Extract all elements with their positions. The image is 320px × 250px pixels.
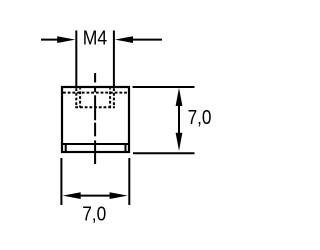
- hidden line: thread minor diameter left: [79, 88, 81, 107]
- hidden line: thread major diameter right: [113, 88, 115, 107]
- bottom step tick right: [125, 144, 127, 152]
- dimension M4: extension line right: [113, 31, 115, 87]
- dimension width 7,0: extension line left: [60, 158, 62, 205]
- bottom step tick left: [65, 144, 67, 152]
- dimension height 7,0: extension line top: [133, 86, 195, 88]
- centerline (vertical dash-dot axis, drawn as measured segments): [94, 73, 96, 164]
- dimension M4: right arrow shaft: [132, 39, 163, 41]
- dimension height 7,0: arrowhead down: [176, 133, 183, 151]
- dimension width 7,0: arrowhead left: [63, 192, 81, 199]
- dimension M4: left arrow shaft: [41, 39, 59, 41]
- svg-text:7,0: 7,0: [82, 203, 106, 225]
- hidden line: bottom of threaded hole: [75, 106, 115, 108]
- hidden line: thread minor diameter right: [109, 88, 111, 107]
- svg-text:M4: M4: [83, 28, 107, 50]
- dimension width 7,0: dimension line shaft: [78, 195, 112, 197]
- dimension M4: left arrowhead pointing right: [57, 36, 75, 43]
- body outline (square block 7.0 x 7.0): [62, 87, 129, 152]
- hidden line: counterbore shoulder (full width dotted): [63, 92, 128, 94]
- dimension width 7,0: arrowhead right: [110, 192, 128, 199]
- dimension height 7,0: arrowhead up: [176, 88, 183, 106]
- hidden line: thread major diameter left: [75, 88, 77, 107]
- dimension M4: extension line left: [75, 31, 77, 87]
- bottom step line: [62, 143, 129, 145]
- dimension width 7,0: extension line right: [128, 158, 130, 205]
- dimension height 7,0: extension line bottom: [133, 152, 195, 154]
- dimension M4: right arrowhead pointing left: [115, 36, 133, 43]
- svg-text:7,0: 7,0: [188, 107, 212, 129]
- dimension height 7,0: dimension line shaft: [178, 103, 180, 136]
